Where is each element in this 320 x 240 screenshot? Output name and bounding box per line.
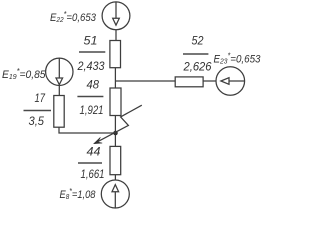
svg-text:52: 52 (192, 34, 204, 48)
svg-text:1,661: 1,661 (81, 167, 105, 181)
arrow with zigzag (branch removal arrow) (94, 105, 142, 144)
wire R51 to R48 (114, 68, 116, 88)
resistor R52 (175, 77, 203, 87)
svg-text:E22*=0,653: E22*=0,653 (50, 10, 97, 24)
node dot (113, 131, 118, 136)
fraction 51/2,433 (77, 33, 106, 73)
wire R52 to E23 (203, 80, 216, 82)
fraction 17/3,5 (24, 91, 52, 128)
svg-text:44: 44 (87, 145, 101, 159)
fraction 48/1,921 (77, 78, 103, 117)
svg-text:51: 51 (84, 33, 98, 47)
wire R48 to R44 through node (114, 116, 116, 147)
wire E19 to R17 (58, 86, 60, 96)
svg-text:17: 17 (35, 91, 47, 105)
svg-text:E8*=1,08: E8*=1,08 (60, 188, 97, 202)
current source E19 (46, 58, 73, 85)
resistor R48 (110, 88, 121, 116)
svg-text:1,921: 1,921 (80, 103, 104, 117)
current source E8 (101, 180, 129, 208)
wire R17 to node (59, 127, 115, 133)
resistor R44 (110, 146, 121, 174)
current source E22 (102, 2, 130, 30)
fraction 44/1,661 (78, 145, 105, 181)
resistor R51 (110, 41, 121, 68)
svg-text:E19*=0,85: E19*=0,85 (2, 68, 46, 82)
svg-text:2,433: 2,433 (77, 59, 105, 73)
current source E23 (216, 67, 245, 96)
wire R44 to E8 (114, 175, 116, 180)
svg-text:2,626: 2,626 (183, 60, 212, 74)
svg-text:E23*=0,653: E23*=0,653 (214, 52, 262, 66)
wire E22 to R51 (115, 30, 117, 41)
svg-text:48: 48 (87, 78, 100, 92)
resistor R17 (54, 96, 64, 128)
fraction 52/2,626 (183, 34, 212, 74)
svg-text:3,5: 3,5 (29, 114, 45, 128)
wire node to right branch (115, 80, 175, 82)
